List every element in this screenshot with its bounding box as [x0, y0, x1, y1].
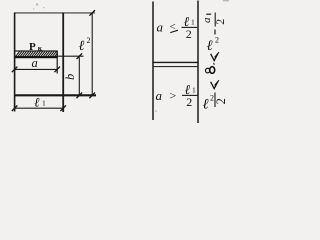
svg-text:ℓ: ℓ: [79, 39, 85, 54]
svg-text:2: 2: [87, 36, 91, 45]
svg-text:b: b: [63, 74, 77, 80]
arrow ticks: [12, 10, 95, 111]
tick b bottom: [77, 93, 83, 99]
row2 rotated <=: [211, 82, 218, 89]
plate bottom edge: [14, 94, 96, 96]
svg-text:ℓ: ℓ: [207, 38, 213, 54]
row1 rotated formula: fraction a/2 bar: [214, 13, 216, 27]
plate right edge: [62, 13, 64, 113]
dimension l2 line: [91, 13, 93, 95]
tick l2 bottom: [89, 93, 95, 99]
row1 rotated minus: [214, 30, 216, 35]
svg-text:a: a: [157, 20, 164, 35]
svg-text:2: 2: [186, 95, 192, 109]
plate left edge: [14, 13, 16, 112]
table divider upper: [152, 61, 198, 63]
tick b top: [77, 53, 83, 59]
svg-text:2: 2: [215, 36, 219, 45]
paper speckles: [33, 0, 229, 112]
tick a left: [12, 67, 18, 73]
table vertical line right: [197, 1, 199, 124]
dimension l1 line: [15, 107, 64, 109]
svg-text:2: 2: [186, 27, 192, 41]
svg-text:к: к: [38, 43, 43, 52]
svg-text:a: a: [201, 17, 213, 23]
tick l1 right: [60, 105, 66, 111]
svg-text:a: a: [156, 88, 163, 103]
svg-text:1: 1: [191, 18, 195, 27]
tick l1 left: [12, 105, 18, 111]
row1 rotated <=: [211, 54, 218, 61]
wire: strip level extension to b line: [57, 55, 84, 57]
table divider lower: [152, 66, 198, 68]
label b rotated: [63, 74, 77, 80]
load strip hatched bar: [15, 51, 57, 57]
plate top edge: [14, 12, 95, 14]
table vertical line left: [152, 2, 154, 121]
svg-text:1: 1: [42, 99, 46, 108]
svg-text:ℓ: ℓ: [34, 95, 40, 110]
svg-text:ℓ: ℓ: [203, 97, 209, 113]
tick l2 top: [89, 10, 95, 16]
svg-text:2: 2: [213, 19, 227, 25]
row1 rotated numerator a stem dash: [206, 13, 211, 15]
svg-text:P: P: [29, 41, 36, 53]
svg-text:1: 1: [192, 86, 196, 95]
row1 rotated a and 2 digits: [201, 17, 227, 25]
svg-text:>: >: [170, 89, 177, 103]
cell2 formula: a > l1/2: [156, 82, 198, 109]
dimension a line: [15, 68, 58, 70]
strip right edge extension down: [56, 51, 58, 74]
dimension b line: [78, 56, 80, 95]
tick a right: [54, 67, 60, 73]
svg-text:a: a: [32, 56, 38, 70]
svg-text:2: 2: [214, 98, 228, 104]
bar bottom thick band: [15, 56, 57, 58]
svg-text:2: 2: [210, 94, 214, 103]
cell1 formula: a <= l1/2: [157, 14, 198, 41]
row2 rotated b (drawn): [206, 63, 215, 73]
